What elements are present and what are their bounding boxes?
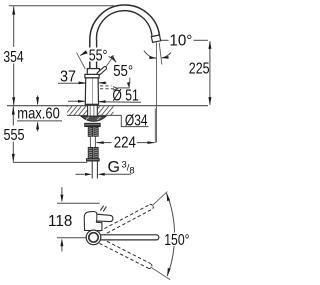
svg-text:Ø34: Ø34 [125,112,148,129]
55 right leader + arrow [129,78,131,84]
lower extension to 150 arc [151,267,171,280]
G3/8 dimension arrows [76,173,85,175]
dimension 224 [96,142,111,144]
hose lines [89,137,91,148]
svg-text:150°: 150° [164,232,189,249]
swivel chevron [113,87,118,91]
rubber washer lens [81,116,106,121]
svg-text:55°: 55° [113,63,133,80]
top-view lower reference line [57,237,86,239]
svg-text:55°: 55° [89,48,108,65]
max.60 bottom arrow [37,122,39,131]
Ø51 right arrow + underline [99,101,141,104]
150deg arc bottom arrowhead [167,268,171,276]
upper extension to 150 arc [152,192,167,206]
dimension 555 vertical line [12,106,14,125]
lever handle rod [99,68,105,74]
224 extension line (outlet axis below deck) [154,109,156,143]
plumb extension line below nozzle [156,43,158,143]
55deg arc right arrowhead [110,55,116,62]
lever arm divider [96,214,98,221]
max.60 top arrow [37,96,39,105]
arrow down 354 [12,97,15,105]
150deg arc top arrowhead [167,193,171,201]
base gasket [85,104,99,106]
lower nut band [86,159,99,162]
lever swing arc 55deg (behind label) [80,53,116,63]
threaded studs upper [88,127,93,137]
dashed spout lower position [102,239,151,264]
body outer circle [86,230,101,245]
spout bar top view [96,235,159,240]
shank outer walls [87,106,89,116]
svg-text:Ø 51: Ø 51 [112,88,138,105]
Ø51 left arrow [68,100,85,102]
118 top arrow [61,187,63,194]
top extension line (spout apex level) [9,5,114,7]
spout gooseneck outer arc [90,5,160,74]
deck bottom edge + Ø34 leader [67,115,149,126]
arrow up 225 [208,41,211,49]
dimension 354 vertical line [13,6,15,47]
body center line [92,78,94,104]
svg-text:354: 354 [3,49,23,66]
lever extreme position line (left) [77,53,86,69]
faucet neck block [87,69,99,75]
55deg arc left arrowhead [80,50,87,55]
swivel marks above lever [100,206,103,211]
dimension 225 vertical line [209,41,211,105]
10deg right arrowhead [162,56,169,59]
svg-text:225: 225 [189,60,210,77]
37 underline/left arrow [58,82,85,84]
arrow up 354 [12,7,15,15]
outlet axis line 10deg [159,43,162,65]
118 bottom arrow [61,246,63,252]
lever extreme position line (right) [101,55,115,74]
svg-text:118: 118 [48,213,72,230]
label 150° (white bg) [164,233,191,247]
faucet head block [85,74,99,78]
threaded studs lower (G3/8 nuts) [88,147,93,158]
swivel dashes row1 [100,85,112,87]
spout gooseneck inner arc [96,11,151,70]
body ring [89,233,98,242]
hose-end reference line [13,161,87,163]
svg-text:10°: 10° [169,33,192,50]
svg-text:555: 555 [4,127,25,144]
arrow down 225 [208,97,211,105]
deck cross-section hatching [66,105,69,108]
dashed spout upper position [99,205,149,232]
swivel dashes row2 [100,88,115,90]
shank white mask over hatch [88,106,98,116]
faucet body [85,78,98,104]
label 55° upper (white bg) [88,48,109,62]
svg-text:max.60: max.60 [17,105,60,122]
countertop deck line [7,105,208,107]
10deg left arrowhead [149,56,156,59]
supply tubes inside shank [89,106,91,116]
10deg angle arc [144,51,156,59]
150deg swivel arc [167,193,175,276]
outlet level line + label 10deg [161,39,169,41]
G3/8 pipe [91,161,93,178]
arrow down 555 [12,154,15,162]
svg-text:224: 224 [114,135,136,152]
top-view upper reference line [57,202,100,204]
lever body top view [84,211,113,230]
mounting nut [85,123,101,126]
arrow up 555 [12,107,15,115]
spout nozzle aerator [151,35,160,42]
washer highlights [86,117,89,120]
37 right arrow [99,82,107,84]
